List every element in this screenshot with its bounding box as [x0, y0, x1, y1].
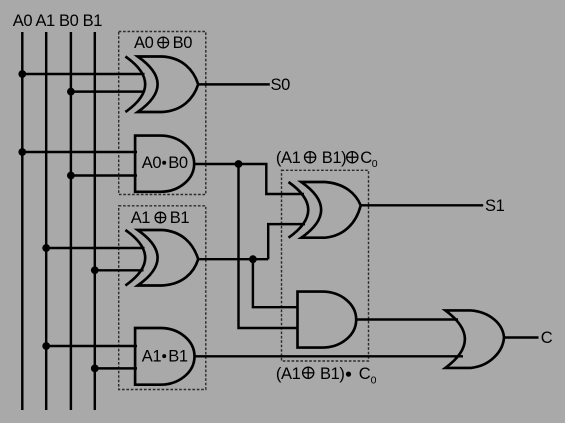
svg-text:A0: A0: [134, 34, 154, 52]
svg-text:0: 0: [372, 158, 378, 170]
dashed box stage 1 bit1: [119, 206, 206, 390]
label A0 xor B0: [134, 34, 192, 52]
svg-text:S1: S1: [485, 197, 505, 215]
wire branch up to XOR3: [268, 224, 305, 259]
xor-gate XOR1 A0 xor B0: [125, 57, 198, 113]
wire C0 branch down to AND3: [239, 164, 298, 328]
wire branch down to AND3: [253, 259, 298, 307]
wire S1 output: [361, 204, 484, 206]
label (A1 xor B1) and C0: [276, 365, 377, 386]
wire A0 to XOR1 input a: [22, 73, 144, 75]
svg-text:B1): B1): [320, 365, 344, 383]
and-gate AND2 A1 and B1: [135, 328, 194, 385]
wire A0 to AND1 input a: [22, 151, 137, 153]
node junction A0-AND1: [18, 148, 26, 156]
svg-text:B1: B1: [170, 209, 190, 227]
wire A1 to AND2 input a: [46, 345, 137, 347]
wire B1 to AND2 input b: [95, 367, 137, 369]
svg-text:0: 0: [371, 374, 377, 386]
svg-text:A1: A1: [142, 348, 162, 366]
svg-text:A0: A0: [142, 154, 162, 172]
wire A1 to XOR2 input a: [46, 247, 144, 249]
dashed box stage 2: [282, 170, 369, 361]
svg-text:A0 A1 B0 B1: A0 A1 B0 B1: [13, 12, 102, 30]
node junction A1-AND2: [42, 342, 50, 350]
wire C0 from AND1: [194, 164, 304, 194]
node junction A1-XOR2: [42, 244, 50, 252]
node junction B0-AND1: [67, 172, 75, 180]
svg-text:(A1: (A1: [276, 365, 301, 383]
wire AND2 output to OR: [194, 355, 463, 357]
svg-text:S0: S0: [271, 76, 291, 94]
xor-gate XOR3 second stage: [289, 182, 361, 238]
xor-gate XOR2 A1 xor B1: [125, 230, 198, 286]
svg-text:A1: A1: [131, 209, 151, 227]
wire B0 to XOR1 input b: [71, 90, 144, 92]
wire B0 bus vertical: [70, 32, 72, 410]
wire XOR2 output: [198, 258, 268, 260]
and-gate AND3 second stage: [298, 292, 357, 348]
label A1 xor B1: [131, 209, 190, 227]
wire B1 bus vertical: [94, 32, 96, 410]
or-gate OR final carry: [445, 310, 504, 368]
wire AND3 output to OR: [356, 318, 458, 320]
node junction B0-XOR1: [67, 88, 75, 96]
wire B0 to AND1 input b: [71, 174, 137, 176]
svg-text:(A1: (A1: [276, 149, 301, 167]
node junction B1-XOR2: [91, 266, 99, 274]
wire B1 to XOR2 input b: [95, 269, 144, 271]
svg-text:C: C: [360, 149, 372, 167]
wire A0 bus vertical: [21, 32, 23, 410]
svg-text:C: C: [541, 329, 553, 347]
svg-text:B0: B0: [173, 34, 193, 52]
node junction A0-XOR1: [18, 70, 26, 78]
dashed box stage 1 bit0: [119, 32, 206, 195]
svg-text:B1: B1: [168, 348, 188, 366]
node junction B1-AND2: [91, 365, 99, 373]
and-gate AND1 A0 and B0: [135, 136, 194, 192]
svg-text:B0: B0: [168, 154, 188, 172]
node junction XOR2 out: [249, 255, 257, 263]
label (A1 xor B1) xor C0: [276, 149, 378, 170]
wire C output: [504, 336, 539, 338]
wire A1 bus vertical: [45, 32, 47, 410]
node junction C0: [235, 160, 243, 168]
wire S0 output: [198, 83, 270, 85]
svg-text:B1): B1): [322, 149, 346, 167]
svg-text:C: C: [359, 365, 371, 383]
